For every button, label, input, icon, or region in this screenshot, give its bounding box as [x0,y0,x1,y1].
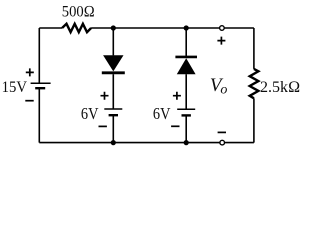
plus sign V2 [101,92,109,100]
svg-text:15V: 15V [2,79,27,97]
junction node top branch1 [111,25,116,30]
wire right upper [253,28,255,69]
wire branch2 upper [185,28,187,56]
minus sign V3 [171,125,179,127]
wire branch2 lower [185,116,187,143]
minus sign Vo [218,131,226,133]
wire branch1 lower [112,115,114,142]
junction node top branch2 [184,25,189,30]
minus sign V1 [25,100,33,102]
resistor R1 zigzag [62,24,91,32]
wire branch2 middle [185,74,187,109]
diode D1 triangle [103,55,123,71]
wire bottom [39,142,254,144]
minus sign V2 [99,125,107,127]
plus sign Vo [217,37,225,45]
terminal bottom open circle [220,140,225,145]
svg-text:6V: 6V [153,105,171,123]
diode D2 bar [175,56,197,59]
svg-text:2.5kΩ: 2.5kΩ [260,79,300,96]
wire right lower [253,98,255,142]
battery V1 long plate [31,82,51,84]
battery V3 long plate [177,108,195,110]
wire left lower [38,88,40,142]
junction node bottom branch2 [184,140,189,145]
wire branch1 middle [112,74,114,109]
resistor R2 zigzag [250,69,259,98]
wire top [39,27,254,29]
svg-text:6V: 6V [81,105,99,123]
junction node bottom branch1 [111,140,116,145]
svg-text:500Ω: 500Ω [62,3,95,21]
svg-text:o: o [220,83,227,98]
diode D2 triangle [177,58,196,74]
wire left upper [38,28,40,83]
wire branch1 upper [112,28,114,55]
plus sign V3 [173,92,181,100]
battery V3 short plate [182,114,191,116]
diode D1 bar [102,71,125,74]
battery V1 short plate [35,87,45,89]
battery V2 short plate [109,114,118,116]
terminal top open circle [220,26,225,31]
plus sign V1 [26,68,34,76]
battery V2 long plate [104,108,122,110]
